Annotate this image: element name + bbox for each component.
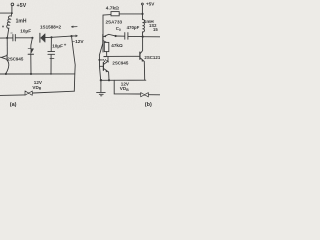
transistor Q3 2SC945 bar bbox=[102, 63, 104, 71]
capacitor C0 470pF bbox=[125, 33, 128, 40]
svg-text:2SA733: 2SA733 bbox=[106, 20, 123, 25]
+5V terminal (b) bbox=[141, 5, 143, 14]
wire to right edge bbox=[143, 36, 160, 38]
transistor Q2 2SA733 base bar bbox=[102, 35, 104, 43]
node J3 bbox=[31, 37, 33, 39]
polarity tick C1 bbox=[11, 32, 13, 34]
wire to right edge bottom bbox=[149, 94, 161, 96]
node E3 bbox=[50, 73, 52, 75]
node J2 bbox=[6, 37, 8, 39]
right edge wire (a) bbox=[72, 36, 76, 91]
wire left branch bbox=[0, 12, 12, 14]
bottom return wire (a) bbox=[33, 91, 75, 93]
annotation arrow (a) bbox=[71, 26, 77, 29]
svg-text:1S1588×2: 1S1588×2 bbox=[40, 25, 62, 30]
resistor R2 47k box bbox=[104, 42, 109, 51]
transistor Q1 2SC945 collector bbox=[6, 38, 8, 54]
svg-text:470pF: 470pF bbox=[127, 25, 140, 30]
stray mark left edge bbox=[2, 26, 4, 28]
wire bbox=[128, 35, 142, 37]
capacitor C1 10uF plates bbox=[13, 35, 15, 41]
wire bbox=[106, 52, 108, 57]
transistor Q3 collector bbox=[104, 56, 108, 64]
transistor Q4 2SC1213 bar bbox=[139, 52, 141, 59]
transistor Q4 collector bbox=[140, 37, 142, 54]
svg-text:(b): (b) bbox=[145, 102, 152, 108]
wire bbox=[0, 37, 13, 39]
svg-text:(a): (a) bbox=[10, 102, 17, 108]
transistor Q1 emitter bbox=[6, 60, 9, 73]
svg-text:10μF: 10μF bbox=[20, 28, 31, 33]
svg-text:+: + bbox=[64, 42, 67, 47]
left wire V_T bbox=[99, 43, 103, 80]
svg-text:47kΩ: 47kΩ bbox=[111, 43, 123, 48]
wire bbox=[119, 13, 142, 15]
label VT overline bbox=[103, 56, 106, 58]
svg-text:−12V: −12V bbox=[72, 39, 84, 45]
svg-text:VDB: VDB bbox=[120, 86, 129, 92]
connector K2 bowtie bbox=[141, 93, 149, 97]
transistor Q4 emitter bbox=[140, 58, 145, 80]
wire arrow to -12V bbox=[72, 35, 77, 37]
wire bbox=[11, 6, 13, 13]
node J4 bbox=[50, 36, 52, 38]
svg-text:2SC945: 2SC945 bbox=[112, 60, 128, 65]
node VT bbox=[98, 59, 100, 61]
diode D1 1S1588 bbox=[39, 33, 41, 42]
svg-text:VT,: VT, bbox=[103, 58, 109, 64]
bottom rail (a) bbox=[0, 73, 75, 75]
node J6 bbox=[141, 13, 143, 15]
svg-text:10μF: 10μF bbox=[52, 43, 63, 48]
resistor R1 4.7k box bbox=[111, 12, 119, 16]
node E5 bbox=[100, 79, 102, 81]
svg-text:VDB: VDB bbox=[32, 85, 41, 91]
transistor Q2 emitter bbox=[103, 34, 115, 37]
wire bbox=[52, 36, 72, 37]
svg-text:1mH: 1mH bbox=[16, 18, 27, 24]
box label 12V VDB bbox=[114, 80, 140, 94]
corner wire (b) top-left bbox=[103, 15, 111, 52]
transistor Q2 collector bbox=[103, 41, 106, 43]
svg-text:15: 15 bbox=[153, 27, 158, 32]
transistor Q1 base bbox=[0, 56, 2, 58]
wire bbox=[16, 37, 33, 39]
node J7 bbox=[142, 36, 144, 38]
node E4 bbox=[108, 79, 110, 81]
node J1 bbox=[11, 12, 13, 14]
wire base rail to Q4 bbox=[104, 55, 140, 57]
capacitor C2 10uF shunt bbox=[50, 37, 52, 51]
inductor L2 1mH bbox=[143, 14, 145, 37]
diode D2 1S1588 vertical bbox=[31, 38, 33, 49]
svg-text:2SC945: 2SC945 bbox=[7, 56, 23, 61]
node J8 bbox=[115, 35, 117, 37]
svg-text:4.7kΩ: 4.7kΩ bbox=[106, 5, 119, 11]
node E1 bbox=[5, 73, 7, 75]
wire bbox=[116, 35, 125, 37]
svg-text:2SC121: 2SC121 bbox=[144, 55, 160, 60]
node E2 bbox=[30, 73, 32, 75]
svg-text:C0: C0 bbox=[116, 26, 121, 32]
transistor Q3 emitter bbox=[104, 69, 109, 81]
svg-text:+5V: +5V bbox=[17, 3, 27, 9]
bottom rail (b) bbox=[101, 79, 146, 81]
ground bbox=[100, 80, 102, 92]
power +5V terminal (a) bbox=[11, 3, 14, 6]
connector K1 bowtie bbox=[25, 91, 32, 95]
inductor L1 1mH bbox=[7, 13, 12, 38]
svg-text:+5V: +5V bbox=[146, 1, 155, 6]
wire bbox=[45, 36, 51, 38]
node J5 bbox=[70, 35, 72, 37]
